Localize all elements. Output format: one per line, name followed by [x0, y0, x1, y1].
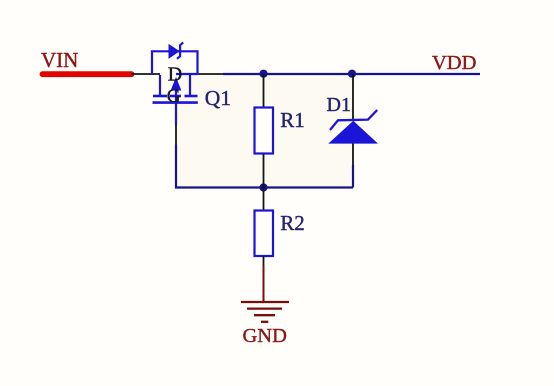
- wire to ground dark red: [263, 266, 265, 302]
- svg-text:VDD: VDD: [432, 52, 476, 74]
- channel bar right: [185, 95, 198, 98]
- wire D1 bottom down: [352, 144, 354, 167]
- junction dot at D1 top: [348, 70, 356, 78]
- junction dot at R1 top: [259, 70, 267, 78]
- wire R2 bottom black: [263, 256, 265, 267]
- zener diode D1 triangle: [328, 121, 378, 144]
- gate pin: [175, 104, 177, 125]
- arrow stem: [175, 89, 177, 104]
- svg-text:VIN: VIN: [41, 48, 78, 72]
- svg-text:D: D: [168, 64, 182, 86]
- body diode zener cathode: [177, 42, 183, 58]
- wire gate navy segment down to bottom rail: [176, 145, 353, 188]
- wire gate black segment: [175, 124, 177, 145]
- wire junction to R2: [263, 188, 265, 211]
- substrate arrow: [171, 78, 180, 90]
- wire black Q1 to rail: [198, 73, 224, 75]
- svg-text:R2: R2: [280, 211, 305, 235]
- svg-text:G: G: [167, 86, 181, 107]
- wire VIN thick red: [43, 71, 132, 77]
- wire D1 navy to bottom rail: [352, 165, 354, 188]
- svg-text:GND: GND: [243, 325, 287, 347]
- zener D1 cathode bar: [330, 110, 377, 130]
- gate bar: [153, 101, 198, 104]
- junction dot at R1 bottom / R2 top: [259, 183, 267, 191]
- cream enclosed region: [176, 74, 353, 188]
- resistor R1: [255, 108, 274, 154]
- wire rail to D1: [352, 74, 354, 121]
- svg-text:D1: D1: [327, 94, 351, 116]
- wire R1 bottom to junction: [263, 154, 265, 188]
- body diode loop: [152, 51, 198, 75]
- svg-text:R1: R1: [280, 108, 305, 132]
- channel bar middle: [170, 95, 181, 98]
- wire navy rail to VDD: [223, 73, 480, 75]
- Q1 drain stub: [189, 75, 191, 95]
- channel bar left: [153, 95, 167, 98]
- wire black VIN to Q1: [131, 73, 160, 75]
- wire rail to R1: [263, 74, 265, 108]
- transistor Q1 (P-MOSFET with body diode): [152, 42, 198, 124]
- resistor R2: [255, 211, 274, 257]
- ground: [241, 302, 289, 322]
- body diode triangle: [169, 45, 179, 58]
- wire Q1 internal blue drain segment: [176, 73, 198, 75]
- Q1 source stub: [159, 75, 161, 95]
- svg-text:Q1: Q1: [205, 86, 231, 110]
